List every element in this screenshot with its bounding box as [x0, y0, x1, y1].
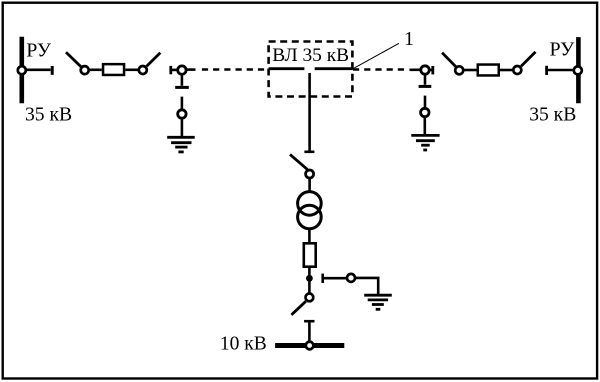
wire hinge to fuse F2 — [464, 69, 477, 72]
wire dashed to QS4 hinge — [410, 69, 421, 72]
disconnector QS9 blade (open) — [292, 301, 306, 315]
dashed line right (box to QS4) — [353, 68, 404, 71]
wire QS3 to ground — [181, 119, 184, 137]
bus bar 10kV — [275, 343, 344, 348]
fuse F1 — [103, 64, 124, 75]
contact tick of disconnector QS1 — [51, 66, 54, 75]
QS3 vertical wire to earth blade contact — [181, 75, 184, 86]
svg-text:РУ: РУ — [26, 40, 52, 62]
disconnector QS7 hinge — [306, 170, 314, 178]
dashed line left (to ВЛ box) — [202, 68, 269, 71]
fuse F3 — [304, 243, 316, 266]
disconnector QS9 hinge — [306, 294, 314, 302]
wire QS9 contact to 10kV bus — [308, 321, 311, 343]
wire fuse F3 to junction — [308, 268, 311, 293]
QS4 earth hinge — [421, 108, 429, 116]
node on 10kV bus — [306, 342, 314, 350]
disconnector QS7 blade (open) — [290, 154, 308, 169]
wire QS8 to ground drop — [356, 278, 379, 294]
svg-text:1: 1 — [404, 28, 414, 50]
wire bus-left to contact — [22, 69, 51, 72]
svg-text:35 кВ: 35 кВ — [25, 104, 72, 125]
wire hinge to fuse F1 — [89, 69, 102, 72]
contact tick of earthing disconnector QS3 — [169, 66, 172, 74]
earthing disconnector QS3 hinge — [178, 66, 186, 74]
junction node dot — [306, 275, 313, 282]
disconnector QS1 hinge — [81, 66, 89, 74]
contact bar of disconnector QS9 — [304, 320, 314, 323]
QS3 earth blade wire — [181, 97, 184, 109]
QS3 earth fixed contact bar — [175, 86, 189, 89]
node on left bus — [18, 66, 26, 74]
ground left — [167, 137, 195, 152]
bus bar right 35kV — [576, 37, 581, 103]
contact tick right bus — [545, 66, 548, 75]
wire QS3 hinge to dashed line — [186, 68, 195, 71]
disconnector QS6 blade (open) — [521, 52, 535, 66]
QS4 earth blade wire — [424, 96, 427, 108]
QS4 earth fixed contact bar — [419, 85, 432, 88]
contact bar of disconnector QS7 — [304, 151, 314, 154]
svg-text:10 кВ: 10 кВ — [220, 333, 267, 354]
wire tick to QS3 hinge — [171, 69, 177, 72]
dashed box ВЛ 35 кВ — [269, 42, 353, 97]
wire from ВЛ tap down — [308, 73, 311, 151]
bus bar left 35kV — [19, 37, 24, 104]
wire contact to right bus — [547, 69, 578, 72]
disconnector QS1 blade (open) — [66, 52, 81, 67]
disconnector QS2 hinge — [139, 66, 147, 74]
svg-text:35 кВ: 35 кВ — [529, 105, 576, 126]
wire transformer to fuse F3 — [308, 229, 311, 242]
wire QS4 hinge to tick — [430, 69, 433, 72]
svg-text:РУ: РУ — [550, 39, 576, 61]
ground right — [411, 135, 439, 150]
wire fuse F2 to hinge — [500, 69, 513, 72]
QS3 earth hinge — [178, 110, 186, 118]
overhead line solid segment left — [269, 67, 305, 70]
wire QS7 to transformer T1 — [308, 179, 311, 192]
wire fuse F1 to hinge — [125, 69, 138, 72]
earthing disconnector QS8 hinge — [347, 274, 355, 282]
disconnector QS2 blade (open) — [147, 53, 161, 67]
transformer T1 secondary winding — [298, 205, 322, 229]
overhead line solid segment right — [315, 67, 353, 70]
ground center — [364, 295, 392, 309]
disconnector QS5 blade (open) — [442, 53, 456, 67]
contact tick of earthing disconnector QS4 — [431, 66, 434, 74]
disconnector QS6 hinge — [513, 66, 521, 74]
QS4 vertical wire to earth blade contact — [424, 75, 427, 85]
earthing disconnector QS4 hinge — [421, 66, 429, 74]
transformer T1 primary winding — [298, 192, 322, 216]
wire QS4 to ground — [423, 117, 426, 135]
contact tick of earthing disconnector QS8 — [321, 274, 324, 283]
fuse F2 — [478, 65, 499, 76]
wire tick to QS8 hinge — [323, 277, 347, 280]
svg-text:ВЛ 35 кВ: ВЛ 35 кВ — [272, 45, 349, 66]
callout leader line to 1 — [353, 43, 399, 69]
node on right bus — [574, 66, 582, 74]
disconnector QS5 hinge — [455, 66, 463, 74]
